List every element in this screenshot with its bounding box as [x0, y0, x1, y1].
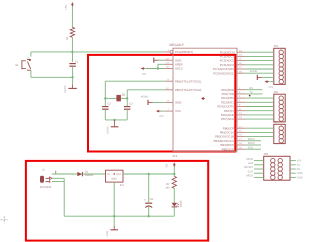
- connector JP3 pin 2 hole: [279, 130, 283, 134]
- node RESET junction: [71, 51, 73, 53]
- node junction: [104, 97, 106, 99]
- svg-text:AGND: AGND: [106, 126, 109, 134]
- wire: [245, 68, 273, 70]
- svg-text:SCK: SCK: [248, 170, 254, 173]
- resistor R1: [66, 27, 75, 39]
- pin 25 PC2(ADC2): [220, 58, 246, 63]
- pin 16 PB2(SS/OC1B): [215, 134, 245, 139]
- wire: [72, 66, 74, 84]
- pin 3 PD1(TXD): [222, 91, 246, 96]
- crystal Q1: [117, 94, 126, 102]
- wire: [52, 171, 78, 174]
- pin 26 PC3(ADC3): [220, 62, 246, 67]
- net label GND: [290, 176, 303, 179]
- wire: [105, 98, 127, 106]
- wire: [245, 97, 273, 99]
- connector JP1 pin 8 hole: [279, 79, 283, 83]
- svg-text:TX: TX: [297, 164, 301, 167]
- connector JP1 pin 3 hole: [279, 58, 283, 62]
- svg-text:PD7(AIN1): PD7(AIN1): [221, 117, 235, 121]
- connector JP2 pin 2 hole: [279, 100, 283, 104]
- wire: [52, 178, 64, 216]
- svg-text:+5V: +5V: [268, 85, 273, 89]
- node junction: [173, 173, 175, 175]
- LED LED1: [172, 201, 182, 208]
- +5V supply symbol (regulator output): [164, 162, 175, 174]
- svg-text:JP2: JP2: [273, 91, 278, 94]
- wire: [173, 207, 175, 216]
- connector JP2 pin 3 hole: [279, 104, 283, 108]
- capacitor C4 (electrolytic): [144, 198, 154, 208]
- wire AREF: [158, 64, 165, 68]
- svg-text:PB5(SCK): PB5(SCK): [222, 147, 235, 151]
- wire: [31, 70, 73, 77]
- connector JP1 box: [273, 45, 285, 84]
- net label SCK: [245, 146, 261, 149]
- annotation highlight rectangle 1 (MCU area): [88, 55, 235, 152]
- connector JP2 pin 4 hole: [279, 109, 283, 113]
- connector JP4 pin 10 hole: [278, 175, 282, 179]
- svg-text:C4: C4: [150, 198, 154, 201]
- diode D1: [77, 171, 94, 177]
- svg-text:PC6(/RESET): PC6(/RESET): [175, 50, 193, 54]
- capacitor C3: [124, 103, 133, 110]
- connector JP4 pin 2 hole: [278, 158, 282, 162]
- pin 27 PC4(ADC4/SDA): [213, 66, 245, 71]
- svg-text:RESET: RESET: [244, 166, 253, 169]
- svg-text:JP1: JP1: [273, 45, 278, 48]
- pin 5 PD3(INT1): [221, 99, 245, 104]
- pin 10 PB7(XTAL2/TOSC2): [165, 87, 202, 92]
- pin 19 PB5(SCK): [222, 146, 246, 151]
- connector JP1 pin 4 hole: [279, 63, 283, 67]
- svg-text:C2: C2: [108, 103, 112, 106]
- connector JP4 pin 3 hole: [271, 163, 275, 167]
- +5V supply symbol (VCC): [156, 110, 165, 119]
- capacitor C1: [69, 61, 78, 66]
- ground AGND (pin22): [154, 58, 165, 63]
- node junction: [113, 119, 115, 121]
- +5V supply symbol (AVCC): [141, 67, 147, 76]
- svg-text:MOSI: MOSI: [248, 138, 255, 141]
- wire: [83, 173, 106, 175]
- wire: [245, 55, 273, 57]
- pin 2 PD0(RXD): [221, 87, 245, 92]
- connector JP4 pin 9 hole: [271, 175, 275, 179]
- connector JP1 pin 1 hole: [279, 50, 283, 54]
- net label MOSI: [245, 138, 261, 141]
- ground AGND (pin8): [141, 96, 165, 105]
- svg-text:GND: GND: [106, 231, 109, 237]
- connector JP2 pin 5 hole: [279, 113, 283, 117]
- wire: [148, 174, 150, 216]
- pin 28 PC5(ADC5/SCL): [213, 70, 245, 75]
- wire: [245, 101, 273, 103]
- wire: [245, 127, 273, 129]
- svg-text:GND: GND: [297, 172, 303, 175]
- connector JP1 pin 7 hole: [279, 75, 283, 79]
- svg-text:LED: LED: [248, 162, 253, 165]
- net label RESET: [244, 166, 263, 169]
- net label GND: [290, 172, 303, 175]
- wire AVCC: [146, 68, 165, 70]
- net label +5V: [290, 160, 302, 163]
- connector JP3 box: [273, 121, 285, 143]
- svg-text:PB7(XTAL2/TOSC2): PB7(XTAL2/TOSC2): [175, 88, 201, 92]
- wire: [245, 110, 273, 112]
- net label RX: [245, 87, 262, 90]
- svg-text:390: 390: [166, 186, 171, 189]
- node junction: [113, 215, 115, 217]
- pin 22 GND: [165, 57, 182, 62]
- wire XTAL2: [127, 90, 164, 99]
- connector JP4 pin 8 hole: [278, 171, 282, 175]
- wire XTAL1: [105, 81, 164, 98]
- wire: [245, 131, 273, 133]
- wire: [105, 97, 127, 99]
- svg-text:+5V: +5V: [297, 160, 302, 163]
- wire: [245, 60, 273, 62]
- svg-text:C1: C1: [75, 61, 79, 64]
- wire: [245, 51, 273, 53]
- svg-text:IC1: IC1: [173, 154, 178, 158]
- connector JP3 pin 3 hole: [279, 134, 283, 138]
- svg-text:AGND: AGND: [64, 85, 67, 93]
- svg-text:Q1: Q1: [122, 94, 126, 97]
- switch S1: [15, 57, 31, 70]
- net label RX: [290, 168, 301, 171]
- pin 21 AREF: [165, 61, 183, 66]
- svg-text:MISO: MISO: [246, 175, 253, 178]
- pin 13 PD7(AIN1): [221, 116, 245, 121]
- wire: [245, 72, 273, 74]
- svg-text:SCK: SCK: [248, 146, 254, 149]
- wire: [173, 188, 175, 202]
- pin 23 PC0(ADC0): [220, 49, 246, 54]
- node junction: [71, 76, 73, 78]
- annotation highlight rectangle 2 (power supply area): [26, 161, 208, 241]
- wire GND rail: [64, 215, 174, 217]
- pin 14 PB0(ICP): [223, 125, 246, 130]
- svg-text:R1: R1: [66, 36, 69, 40]
- net label SCK: [248, 170, 264, 173]
- pin 11 PD5(T1): [224, 108, 245, 113]
- connector JP1 pin 6 hole: [279, 71, 283, 75]
- pin 18 PB4(MISO): [220, 142, 245, 147]
- +5V supply symbol (JP1 pin8): [264, 80, 273, 89]
- svg-text:PC5(ADC5/SCL): PC5(ADC5/SCL): [213, 71, 235, 75]
- node junction: [148, 173, 150, 175]
- svg-text:IN: IN: [107, 173, 110, 176]
- svg-text:AGND: AGND: [250, 70, 258, 73]
- wire: [245, 118, 273, 120]
- svg-text:IC2: IC2: [120, 184, 125, 187]
- pin 20 AVCC: [165, 66, 183, 71]
- svg-text:GND: GND: [175, 101, 181, 105]
- op-amp U1 IC1 MEGA8-P box: [169, 43, 237, 158]
- pin 24 PC1(ADC1): [220, 54, 246, 59]
- pin 15 PB1(OC1A): [220, 130, 246, 135]
- ground AGND (JP1 pin7): [257, 75, 274, 80]
- svg-text:S1: S1: [15, 64, 19, 67]
- ground AGND (reset): [64, 84, 77, 93]
- connector JP1 pin 2 hole: [279, 54, 283, 58]
- wire: [173, 174, 175, 176]
- ground AGND (crystal): [106, 120, 118, 134]
- connector J1 DC jack: [40, 169, 52, 189]
- pin 1 PC6(/RESET): [165, 49, 193, 54]
- sheet origin crosshair: [1, 216, 9, 223]
- +5V supply symbol (reset pull-up): [64, 2, 74, 10]
- svg-text:MEGA8-P: MEGA8-P: [169, 43, 183, 47]
- pin 4 PD2(INT0): [221, 95, 245, 100]
- svg-text:GND: GND: [112, 178, 118, 181]
- svg-text:LED1: LED1: [179, 201, 182, 208]
- wire: [30, 52, 32, 57]
- connector JP4 pin 5 hole: [271, 167, 275, 171]
- connector JP4 pin 7 hole: [271, 171, 275, 175]
- resistor R2: [166, 176, 177, 189]
- connector JP2 pin 1 hole: [279, 96, 283, 100]
- connector JP4 box: [263, 153, 290, 180]
- svg-text:+5V: +5V: [164, 164, 168, 169]
- wire: [245, 114, 273, 116]
- connector JP4 pin 4 hole: [278, 163, 282, 167]
- svg-text:DCJ0202: DCJ0202: [40, 186, 52, 189]
- svg-text:TX: TX: [249, 91, 253, 94]
- ground GND (supply): [106, 226, 118, 237]
- svg-text:PB6(XTAL1/TOSC1): PB6(XTAL1/TOSC1): [175, 79, 201, 83]
- pin 8 GND: [165, 100, 182, 105]
- wire: [245, 106, 273, 108]
- svg-text:GND: GND: [297, 176, 303, 179]
- wire +5V output: [123, 173, 174, 175]
- net label TX: [245, 91, 262, 94]
- capacitor C2: [102, 103, 111, 110]
- svg-text:VCC: VCC: [175, 109, 181, 113]
- svg-text:+: +: [144, 198, 146, 202]
- wire RESET net: [31, 51, 165, 53]
- pin 9 PB6(XTAL1/TOSC1): [165, 78, 202, 83]
- net label TX: [290, 164, 300, 167]
- connector JP3 pin 4 hole: [279, 139, 283, 143]
- pin 17 PB3(MOSI/OC2): [213, 138, 245, 143]
- voltage regulator IC2 78L05: [106, 170, 125, 187]
- svg-text:AVCC: AVCC: [175, 67, 183, 71]
- svg-text:MOSI: MOSI: [246, 158, 253, 161]
- connector JP2 box: [273, 91, 285, 122]
- node junction: [157, 67, 159, 69]
- svg-text:JP3: JP3: [273, 121, 278, 124]
- node junction: [148, 215, 150, 217]
- wire regulator ground: [113, 182, 115, 226]
- svg-text:RX: RX: [249, 87, 253, 90]
- svg-text:C3: C3: [129, 103, 133, 106]
- net label MISO: [245, 142, 261, 145]
- connector JP4 pin 1 hole: [271, 158, 275, 162]
- svg-text:AGND: AGND: [141, 96, 149, 99]
- wire: [71, 7, 73, 28]
- svg-text:JP4: JP4: [263, 153, 268, 156]
- connector JP3 pin 1 hole: [279, 126, 283, 130]
- connector JP2 pin 6 hole: [279, 117, 283, 121]
- svg-text:+5V: +5V: [64, 5, 68, 10]
- wire: [71, 37, 73, 52]
- svg-text:+5V: +5V: [159, 114, 164, 118]
- wire: [245, 136, 273, 138]
- svg-text:OUT: OUT: [116, 173, 122, 176]
- net label LED: [248, 162, 264, 165]
- wire: [71, 52, 73, 62]
- pin 12 PD6(AIN0): [221, 112, 245, 117]
- pin 6 PD4(XCK/T0): [217, 104, 245, 109]
- connector JP1 pin 5 hole: [279, 67, 283, 71]
- svg-text:+5V: +5V: [141, 72, 146, 76]
- svg-text:MISO: MISO: [248, 142, 255, 145]
- node junction: [126, 97, 128, 99]
- svg-text:RX: RX: [297, 168, 301, 171]
- wire: [105, 109, 127, 120]
- net label MISO: [246, 175, 263, 178]
- pin 7 VCC: [165, 108, 182, 113]
- net label MOSI: [246, 158, 263, 161]
- part origin cross: [249, 95, 251, 97]
- net label AGND: [250, 70, 258, 73]
- connector JP4 pin 6 hole: [278, 167, 282, 171]
- wire: [245, 64, 273, 66]
